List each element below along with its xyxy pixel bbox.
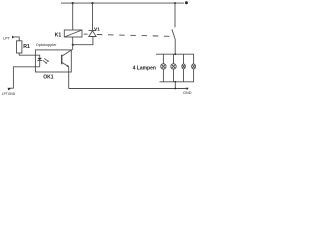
node feed junction on lamp rail <box>174 53 176 55</box>
terminal arrow LPT <box>12 36 15 39</box>
lamp E3 <box>182 64 186 69</box>
lamp E2 <box>171 64 176 69</box>
phototransistor of OK1 <box>62 49 73 67</box>
svg-text:LPT: LPT <box>3 36 11 40</box>
node supply terminal dot top right <box>185 1 188 4</box>
wire junction to diode bottom <box>73 37 93 45</box>
lamp E4 <box>192 64 196 69</box>
svg-text:LPTGND: LPTGND <box>2 92 16 96</box>
LED emission arrows <box>43 59 49 64</box>
wire long ground return <box>69 88 186 90</box>
node junction ground feed on return wire <box>174 88 176 90</box>
wire R1 to LED anode <box>19 53 40 58</box>
svg-text:OK1: OK1 <box>43 75 54 81</box>
svg-text:Optokoppler: Optokoppler <box>36 43 57 47</box>
wire dashed mechanical link coil to contact <box>84 33 88 35</box>
lamp E1 <box>161 64 166 69</box>
wire lamp2 bottom lead <box>173 69 175 82</box>
relay coil K1 <box>64 30 82 37</box>
resistor R1 <box>17 41 22 53</box>
wire lamp1 top lead <box>162 54 164 64</box>
switch relay contact blade <box>172 29 175 39</box>
node feed junction on bottom rail <box>174 81 176 83</box>
wire rail to diode cathode <box>92 3 94 30</box>
wire lamp3 bottom lead <box>183 69 185 82</box>
node junction V1 on rail <box>91 2 93 4</box>
LED of optocoupler <box>37 58 42 67</box>
svg-text:K1: K1 <box>55 32 62 38</box>
svg-text:GND: GND <box>183 91 192 95</box>
wire lamp1 bottom lead <box>162 69 164 82</box>
svg-text:V1: V1 <box>94 26 100 32</box>
node junction K1 on rail <box>72 2 74 4</box>
wire lamp3 top lead <box>183 54 185 64</box>
wire K1 coil to junction <box>72 37 74 45</box>
svg-text:R1: R1 <box>23 44 30 50</box>
node junction dot collector <box>72 44 74 46</box>
wire emitter to ground rail <box>68 67 70 89</box>
wire lamp top rail <box>156 54 194 64</box>
wire contact to lamp rail <box>174 39 176 54</box>
diode V1 flyback <box>89 31 97 37</box>
wire lamp bottom rail <box>160 69 194 82</box>
wire collector to junction <box>72 45 74 49</box>
terminal arrow LPTGND <box>8 88 11 91</box>
wire rail to K1 coil <box>72 3 74 30</box>
wire lamp2 top lead <box>173 54 175 64</box>
optocoupler box OK1 <box>35 50 71 72</box>
wire top supply rail <box>61 2 184 4</box>
node junction switch on rail <box>174 2 176 4</box>
wire rail to contact <box>174 3 176 27</box>
ground terminal arrow right <box>186 88 189 90</box>
wire bottom rail to ground wire <box>174 82 176 89</box>
wire LED cathode to LPTGND <box>9 67 40 88</box>
wire LPT to R1 <box>14 37 19 41</box>
svg-text:4 Lampen: 4 Lampen <box>133 65 156 71</box>
